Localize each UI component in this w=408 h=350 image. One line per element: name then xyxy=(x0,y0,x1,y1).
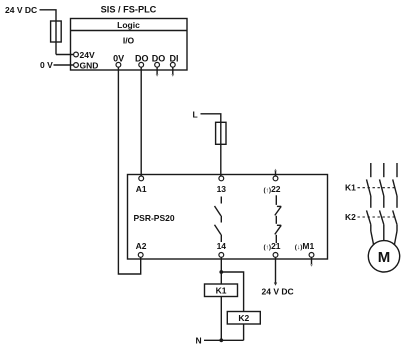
wire fuse to 24V terminal xyxy=(56,54,73,56)
svg-text:0 V: 0 V xyxy=(40,60,53,70)
svg-text:24 V DC: 24 V DC xyxy=(5,5,37,15)
fuse F1 xyxy=(51,21,62,55)
terminal A2 xyxy=(136,241,147,257)
junction node 14/K2 branch xyxy=(219,270,223,274)
contactor K2 main contact phase 3 xyxy=(393,210,397,231)
NC contact pair between 22 and 21 xyxy=(275,195,281,243)
wire K1 coil to N xyxy=(220,297,222,341)
wire branch to K2 coil xyxy=(221,272,243,312)
wire 21 to 24 V DC xyxy=(274,257,277,286)
wire L to fuse F2 xyxy=(201,114,221,122)
wire 0 V to GND terminal xyxy=(54,64,74,66)
contactor K2 main contact phase 1 xyxy=(367,210,371,231)
svg-text:DO: DO xyxy=(135,54,149,64)
NO contact pair between 13 and 14 xyxy=(215,197,222,243)
terminal 0V (PLC output) xyxy=(113,54,124,68)
stub wire below M1 xyxy=(310,257,313,267)
svg-text:(↑)21: (↑)21 xyxy=(263,241,280,251)
svg-text:K2: K2 xyxy=(345,212,356,222)
svg-text:M: M xyxy=(378,249,391,266)
terminal DO 2 xyxy=(152,54,166,68)
terminal 22 xyxy=(263,176,280,194)
wire 0V to A2 xyxy=(118,67,140,274)
svg-text:A2: A2 xyxy=(136,241,147,251)
svg-text:24V: 24V xyxy=(80,50,95,60)
wire phase 1 into motor xyxy=(371,231,374,245)
contactor coil K2 xyxy=(227,312,260,325)
svg-text:24 V DC: 24 V DC xyxy=(262,287,294,297)
svg-text:L: L xyxy=(193,109,198,119)
terminal DI xyxy=(170,54,179,68)
svg-text:Logic: Logic xyxy=(117,20,140,30)
stub wire from DI xyxy=(171,67,174,77)
svg-text:N: N xyxy=(196,336,202,346)
terminal 21 xyxy=(263,241,280,257)
contactor coil K1 xyxy=(205,284,238,297)
svg-text:K2: K2 xyxy=(238,313,249,323)
wire 14 to K1 coil xyxy=(220,257,222,284)
wire N line xyxy=(204,339,244,341)
motor M xyxy=(368,241,399,272)
wire fuse F2 to terminal 13 xyxy=(220,145,222,176)
contactor K1 main contact phase 2 xyxy=(380,179,384,207)
svg-text:SIS / FS-PLC: SIS / FS-PLC xyxy=(101,5,157,15)
three phase feed L2 xyxy=(383,163,385,177)
svg-text:13: 13 xyxy=(217,184,227,194)
label K2 with linkage xyxy=(345,212,397,222)
svg-text:GND: GND xyxy=(80,60,99,70)
three phase feed L1 xyxy=(370,163,372,177)
wire from 24 V DC to fuse F1 xyxy=(40,10,57,21)
wire phase 3 into motor xyxy=(394,231,397,245)
svg-text:(↑)22: (↑)22 xyxy=(263,184,280,194)
svg-text:0V: 0V xyxy=(113,54,124,64)
terminal GND xyxy=(74,60,99,70)
terminal DO 1 xyxy=(135,54,149,68)
label K1 with linkage xyxy=(345,183,397,193)
svg-text:DI: DI xyxy=(170,54,179,64)
PLC box SIS / FS-PLC xyxy=(71,5,188,71)
terminal M1 xyxy=(295,241,315,257)
three phase feed L3 xyxy=(396,163,398,177)
terminal A1 xyxy=(136,176,147,194)
svg-text:PSR-PS20: PSR-PS20 xyxy=(134,213,175,223)
terminal 24V xyxy=(74,50,95,60)
svg-text:K1: K1 xyxy=(216,286,227,296)
stub wire above terminal 22 xyxy=(274,169,277,176)
wire DO to A1 xyxy=(140,67,142,176)
svg-text:DO: DO xyxy=(152,54,166,64)
terminal 13 xyxy=(217,176,227,194)
svg-text:14: 14 xyxy=(217,241,227,251)
stub wire from DO 2 xyxy=(156,67,159,77)
contactor K2 main contact phase 2 xyxy=(380,210,384,240)
svg-text:K1: K1 xyxy=(345,183,356,193)
contactor K1 main contact phase 1 xyxy=(367,179,371,207)
svg-text:(↓)M1: (↓)M1 xyxy=(295,241,315,251)
contactor K1 main contact phase 3 xyxy=(393,179,397,207)
svg-text:I/O: I/O xyxy=(123,36,135,46)
safety relay box PSR-PS20 xyxy=(128,175,328,260)
wire K2 coil to N xyxy=(243,324,245,340)
junction node K1/N xyxy=(219,338,223,342)
svg-text:A1: A1 xyxy=(136,184,147,194)
terminal 14 xyxy=(217,241,227,257)
fuse F2 xyxy=(216,122,226,145)
